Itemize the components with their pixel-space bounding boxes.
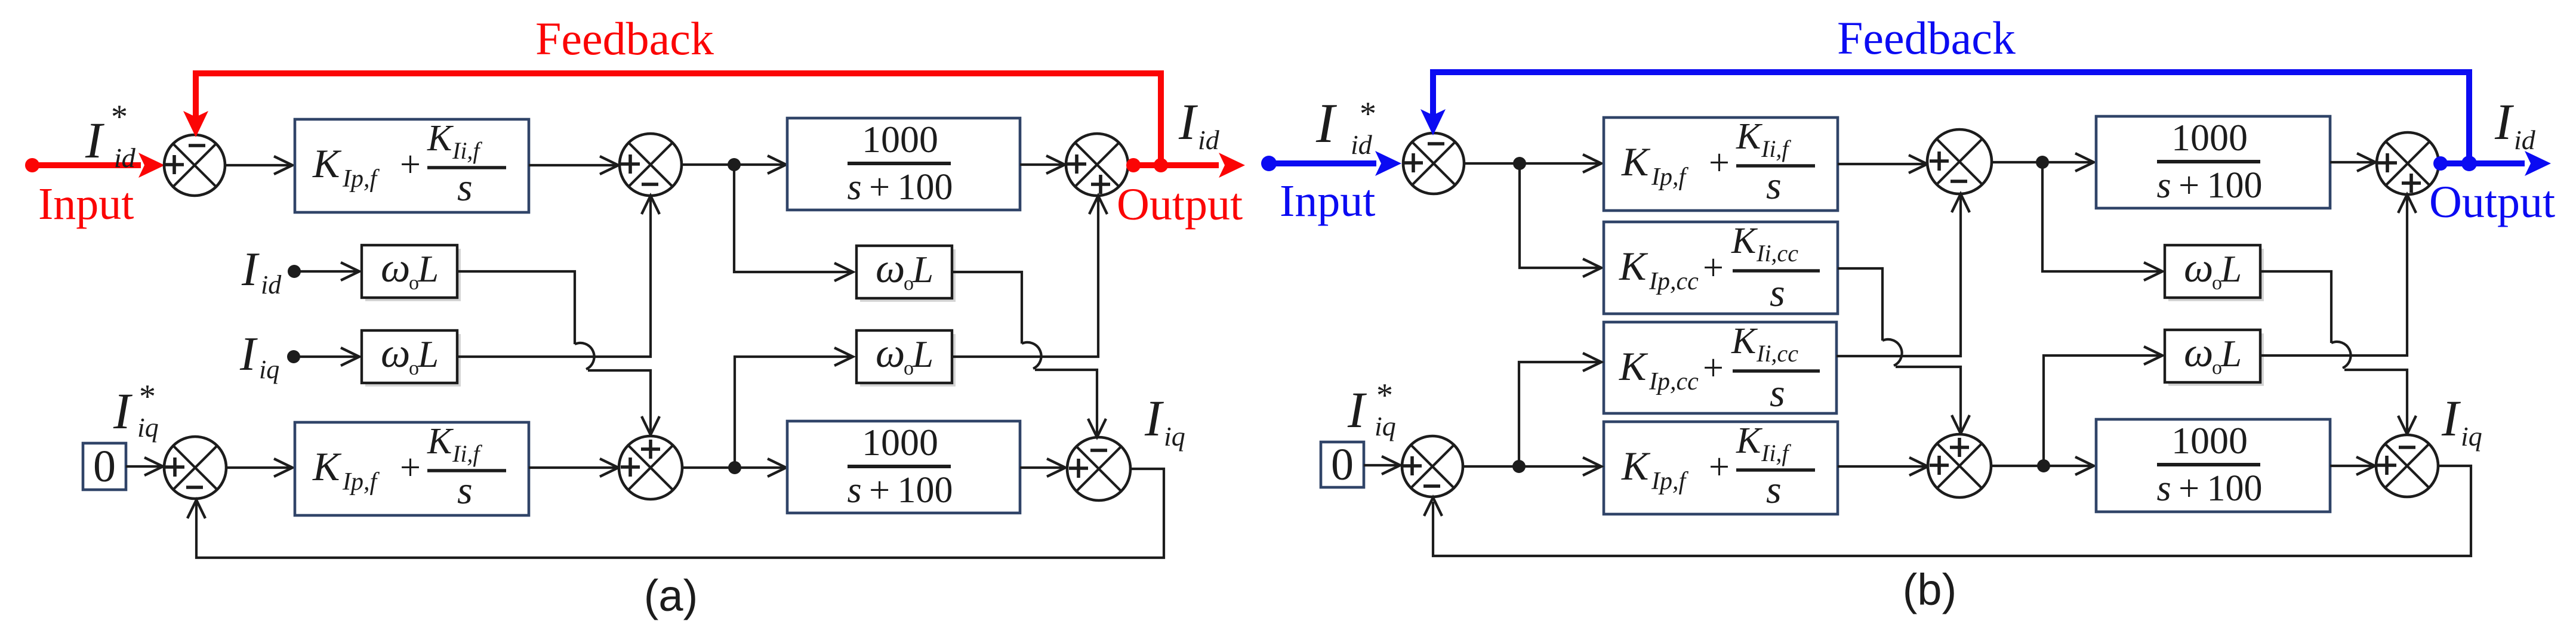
svg-text:Output: Output bbox=[2429, 177, 2555, 227]
PI block B4 K_Ip,f+K_Ii,f/s bbox=[1604, 422, 1838, 514]
summing junction T4 (b) bbox=[1402, 436, 1463, 497]
omega block A8 w_oL bbox=[860, 334, 956, 387]
omega block A6 w_oL bbox=[365, 334, 461, 387]
junction node M3 (b bottom) bbox=[1512, 460, 1526, 473]
svg-text:s: s bbox=[1770, 372, 1785, 415]
svg-text:K: K bbox=[1619, 344, 1648, 389]
wire S4 to PI block A2 bbox=[226, 466, 290, 469]
PI block B3 K_Ip,cc+K_Ii,cc/s bbox=[1604, 322, 1837, 413]
branch wire M3 up to block B3 bbox=[1519, 362, 1599, 466]
svg-text:K: K bbox=[427, 421, 454, 462]
summing junction S3 (a) bbox=[1066, 134, 1128, 196]
svg-text:s + 100: s + 100 bbox=[2157, 468, 2263, 509]
wire B2 output with hop, down into T5 bbox=[1838, 268, 1882, 341]
svg-text:+: + bbox=[1709, 447, 1730, 487]
svg-text:Ii,cc: Ii,cc bbox=[1756, 240, 1798, 267]
summing junction T6 (b) bbox=[2376, 435, 2438, 497]
svg-text:Ii,f: Ii,f bbox=[1761, 440, 1791, 466]
junction node M4 (b bottom) bbox=[2037, 459, 2050, 472]
junction node N1 (a top) bbox=[728, 158, 741, 171]
transfer block B5 1000/(s+100) bbox=[2096, 116, 2330, 208]
PI block B1 K_Ip,f+K_Ii,f/s bbox=[1604, 118, 1838, 211]
svg-text:K: K bbox=[1621, 443, 1651, 489]
wire T2 to TF block B5 bbox=[1992, 161, 2091, 163]
svg-text:s + 100: s + 100 bbox=[2157, 165, 2263, 206]
wire S2 to TF block A3 bbox=[682, 163, 784, 166]
svg-text:I: I bbox=[2441, 389, 2461, 447]
svg-text:Ii,f: Ii,f bbox=[1761, 135, 1791, 162]
summing junction T5 (b) bbox=[1928, 434, 1991, 497]
svg-text:+: + bbox=[400, 144, 421, 185]
summing junction T1 (b) bbox=[1403, 133, 1464, 194]
blue output node dot 1 bbox=[2433, 156, 2448, 171]
svg-text:0: 0 bbox=[93, 441, 116, 491]
junction node N2 (a bottom) bbox=[728, 461, 741, 474]
wire B3 output up into T2 bbox=[1837, 196, 1961, 356]
omega block B7 w_oL bbox=[2168, 333, 2264, 386]
PI block A1 K_Ip,f+K_Ii,f/s bbox=[295, 119, 529, 212]
svg-text:L: L bbox=[417, 333, 439, 375]
svg-text:(b): (b) bbox=[1903, 565, 1956, 614]
wire A4 output with hop over I_iq line bbox=[457, 271, 575, 344]
svg-text:iq: iq bbox=[137, 412, 159, 443]
svg-text:K: K bbox=[1736, 421, 1763, 461]
wire B4 to T5 bbox=[1838, 465, 1925, 468]
node dot I_iq (a) bbox=[287, 350, 300, 363]
transfer block A7 1000/(s+100) bbox=[787, 421, 1020, 513]
branch wire N2 up to omega block A8 bbox=[735, 357, 851, 468]
wire I_iq dot to omega block A6 bbox=[294, 355, 357, 358]
omega block A4 w_oL bbox=[365, 249, 461, 301]
svg-text:iq: iq bbox=[1375, 411, 1396, 441]
svg-text:K: K bbox=[427, 118, 454, 159]
wire B5 to T3 bbox=[2330, 161, 2373, 163]
wire A8 output up into S3 bbox=[952, 198, 1098, 357]
svg-text:L: L bbox=[2220, 248, 2242, 290]
blue output wire I_id (b) bbox=[2439, 160, 2525, 166]
wire zero box to S4 bbox=[126, 465, 161, 468]
transfer block A3 1000/(s+100) bbox=[787, 118, 1020, 210]
svg-text:+: + bbox=[1709, 143, 1730, 183]
svg-text:Ip,cc: Ip,cc bbox=[1648, 268, 1699, 295]
svg-text:Ip,f: Ip,f bbox=[342, 468, 380, 496]
svg-text:ω: ω bbox=[381, 245, 410, 291]
svg-text:Ip,f: Ip,f bbox=[1651, 163, 1688, 191]
wire B8 to T6 bbox=[2330, 465, 2372, 467]
svg-text:I: I bbox=[113, 382, 133, 440]
wire S1 to PI block A1 bbox=[225, 164, 290, 166]
PI block B2 K_Ip,cc+K_Ii,cc/s bbox=[1604, 222, 1838, 314]
svg-text:+: + bbox=[1703, 248, 1724, 288]
svg-text:Input: Input bbox=[38, 179, 134, 229]
svg-text:s: s bbox=[1766, 468, 1782, 512]
svg-text:s: s bbox=[457, 166, 473, 209]
svg-text:I: I bbox=[1315, 92, 1337, 154]
svg-text:*: * bbox=[139, 378, 156, 415]
wire zero box to T4 bbox=[1364, 464, 1398, 466]
svg-text:1000: 1000 bbox=[862, 421, 938, 463]
svg-text:1000: 1000 bbox=[2171, 116, 2248, 159]
transfer block B8 1000/(s+100) bbox=[2096, 419, 2330, 512]
svg-text:*: * bbox=[111, 98, 128, 135]
omega block A5 w_oL bbox=[860, 249, 956, 302]
svg-text:K: K bbox=[1731, 221, 1758, 261]
svg-text:L: L bbox=[912, 333, 933, 375]
svg-text:I: I bbox=[1347, 381, 1367, 438]
svg-text:I: I bbox=[1178, 93, 1198, 150]
svg-text:*: * bbox=[1376, 377, 1393, 414]
svg-text:Input: Input bbox=[1280, 176, 1375, 226]
svg-text:ω: ω bbox=[2184, 330, 2213, 376]
red output arrowhead (a) bbox=[1219, 153, 1245, 178]
svg-text:Ip,f: Ip,f bbox=[1651, 468, 1688, 495]
red output node dot 1 bbox=[1126, 158, 1141, 172]
svg-text:K: K bbox=[1621, 139, 1651, 184]
blue feedback wire (b) bbox=[1433, 72, 2469, 159]
svg-text:(a): (a) bbox=[644, 571, 698, 620]
wire S5 to TF block A7 bbox=[682, 466, 784, 469]
svg-text:I: I bbox=[1144, 389, 1164, 447]
wire I_id dot to omega block A4 bbox=[294, 270, 357, 273]
svg-text:ω: ω bbox=[381, 330, 410, 376]
svg-text:1000: 1000 bbox=[862, 118, 938, 160]
bottom feedback wire (b) bbox=[1433, 466, 2471, 556]
blue input wire I*_id bbox=[1269, 160, 1376, 166]
red output node dot 2 bbox=[1154, 158, 1168, 172]
svg-text:I: I bbox=[241, 243, 260, 296]
zero input box (b) bbox=[1321, 442, 1364, 487]
junction node M2 (b top) bbox=[2036, 156, 2049, 169]
svg-text:iq: iq bbox=[259, 355, 279, 384]
summing junction T2 (b) bbox=[1927, 129, 1992, 194]
svg-text:Ii,f: Ii,f bbox=[452, 137, 482, 164]
blue input arrowhead bbox=[1375, 151, 1401, 176]
svg-text:Ip,cc: Ip,cc bbox=[1648, 368, 1699, 395]
svg-text:K: K bbox=[312, 141, 342, 186]
svg-text:ω: ω bbox=[2184, 245, 2213, 291]
panel (a) red input source dot bbox=[25, 158, 39, 172]
red input wire I*_id bbox=[32, 162, 141, 168]
svg-text:K: K bbox=[1736, 116, 1763, 157]
wire A2 to S5 bbox=[529, 466, 616, 469]
svg-text:Ip,f: Ip,f bbox=[342, 165, 380, 193]
omega block B6 w_oL bbox=[2168, 249, 2264, 301]
svg-text:s: s bbox=[1770, 271, 1785, 315]
zero input box (a) bbox=[83, 443, 126, 490]
PI block A2 K_Ip,f+K_Ii,f/s bbox=[295, 422, 529, 515]
svg-text:K: K bbox=[1619, 243, 1648, 289]
blue output node dot 2 bbox=[2461, 156, 2477, 171]
svg-text:0: 0 bbox=[1331, 440, 1354, 490]
wire T1 to node bbox=[1464, 162, 1599, 165]
svg-text:L: L bbox=[417, 248, 439, 290]
svg-text:s: s bbox=[1766, 164, 1782, 208]
wire B1 to T2 bbox=[1838, 163, 1925, 165]
svg-text:id: id bbox=[2514, 125, 2536, 155]
summing junction S4 (a) bbox=[164, 437, 226, 499]
node dot I_id (a) bbox=[288, 265, 301, 278]
svg-text:ω: ω bbox=[876, 330, 905, 376]
svg-text:id: id bbox=[261, 270, 282, 299]
wire B7 output up into T3 bbox=[2260, 197, 2407, 355]
svg-text:+: + bbox=[400, 447, 421, 488]
red feedback arrowhead into S1 bbox=[183, 111, 208, 137]
summing junction S1 (a) bbox=[164, 135, 225, 196]
svg-text:I: I bbox=[239, 328, 258, 381]
svg-text:Feedback: Feedback bbox=[1837, 12, 2016, 64]
svg-text:iq: iq bbox=[1164, 421, 1185, 452]
svg-text:Ii,cc: Ii,cc bbox=[1756, 340, 1798, 367]
summing junction S6 (a) bbox=[1067, 437, 1130, 500]
wire T5 to TF block B8 bbox=[1991, 465, 2091, 467]
wire A1 to S2 bbox=[529, 164, 616, 166]
wire A6 output up into S2 bbox=[457, 198, 651, 357]
wire A3 to S3 bbox=[1020, 163, 1062, 166]
svg-text:L: L bbox=[2220, 333, 2242, 375]
svg-text:iq: iq bbox=[2461, 421, 2482, 452]
wire A5 output with hop, down into S6 bbox=[952, 272, 1022, 344]
svg-text:K: K bbox=[312, 444, 342, 489]
red input arrowhead bbox=[138, 153, 165, 178]
svg-text:id: id bbox=[114, 143, 136, 173]
svg-text:s: s bbox=[457, 469, 473, 512]
summing junction S5 (a) bbox=[619, 436, 682, 499]
svg-text:Ii,f: Ii,f bbox=[452, 440, 482, 467]
svg-text:id: id bbox=[1351, 129, 1373, 160]
summing junction S2 (a) bbox=[620, 134, 682, 196]
red feedback wire (a) bbox=[196, 73, 1161, 161]
svg-text:+: + bbox=[1703, 348, 1724, 388]
blue output arrowhead (b) bbox=[2525, 151, 2551, 176]
blue feedback arrowhead into T1 bbox=[1421, 109, 1446, 135]
bottom feedback wire (a) bbox=[196, 469, 1164, 558]
svg-text:L: L bbox=[912, 249, 933, 290]
summing junction T3 (b) bbox=[2377, 132, 2439, 194]
branch wire M1 down to block B2 bbox=[1520, 163, 1599, 268]
svg-text:s + 100: s + 100 bbox=[848, 167, 953, 208]
panel (b) blue input source dot bbox=[1261, 156, 1277, 171]
svg-text:1000: 1000 bbox=[2171, 419, 2248, 462]
branch wire M4 up to omega block B7 bbox=[2044, 355, 2160, 466]
svg-text:K: K bbox=[1731, 321, 1758, 361]
branch wire M2 down to omega block B6 bbox=[2042, 162, 2160, 271]
red output wire I_id (a) bbox=[1128, 162, 1219, 168]
wire T4 to node bbox=[1463, 465, 1599, 468]
svg-text:s + 100: s + 100 bbox=[848, 470, 953, 511]
svg-text:I: I bbox=[85, 112, 104, 169]
wire B6 output with hop, down into T6 bbox=[2260, 271, 2331, 343]
branch wire N1 down to omega block A5 bbox=[734, 165, 851, 272]
svg-text:Output: Output bbox=[1117, 180, 1243, 230]
junction node M1 (b) bbox=[1513, 157, 1526, 170]
svg-text:Feedback: Feedback bbox=[535, 13, 714, 64]
svg-text:*: * bbox=[1360, 95, 1376, 132]
svg-text:id: id bbox=[1198, 125, 1220, 155]
svg-text:I: I bbox=[2494, 93, 2514, 150]
wire A7 to S6 bbox=[1020, 466, 1063, 469]
svg-text:ω: ω bbox=[876, 246, 905, 292]
